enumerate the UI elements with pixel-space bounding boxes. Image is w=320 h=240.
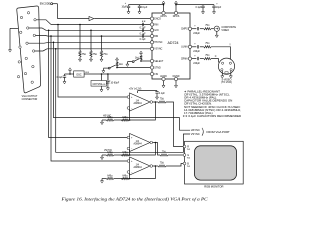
note crystal footnote text xyxy=(183,90,242,118)
svg-text:VSYNC: VSYNC xyxy=(191,132,200,136)
ground (10uF right) xyxy=(213,8,215,10)
monitor screen xyxy=(195,146,237,180)
wire U3B gnd xyxy=(102,154,106,156)
svg-text:75Ω: 75Ω xyxy=(187,148,191,151)
resistor 649ohm gain U3A xyxy=(106,119,114,121)
wire U3C to res xyxy=(155,165,158,167)
capacitor 10uF (left) xyxy=(128,5,130,6)
capacitor 220uF (CRMA) xyxy=(197,57,198,60)
svg-text:0.1µF: 0.1µF xyxy=(140,39,147,41)
wire +5V to resistor STND xyxy=(116,60,118,62)
resistor 649ohm feedback U3C xyxy=(121,177,129,179)
wire line3 GIN xyxy=(46,29,150,31)
wire line4 BIN xyxy=(48,35,150,37)
wire switch S2 to ground xyxy=(103,67,108,69)
svg-text:75Ω: 75Ω xyxy=(82,53,87,56)
ground (connector shell) xyxy=(9,48,12,53)
ground terminator x=91 xyxy=(90,57,93,62)
resistor 75ohm (LUMA) xyxy=(204,46,211,48)
ground (trimmer) xyxy=(107,83,109,86)
wire DPOS riser xyxy=(175,3,177,11)
resistor 75ohm (G drive) xyxy=(160,154,168,156)
node trimmer junction xyxy=(107,73,109,75)
node DPOS rail xyxy=(175,4,177,6)
node STND junction xyxy=(116,67,118,69)
resistor 1k STND xyxy=(116,62,118,66)
wire line1 right to ENCD xyxy=(94,18,150,20)
resistor 75ohm (B drive) xyxy=(158,165,166,167)
wire trimmer xyxy=(107,74,109,81)
wire U3B output xyxy=(152,142,155,144)
svg-text:0.1µF: 0.1µF xyxy=(159,93,166,95)
capacitor 220uF (LUMA) xyxy=(197,45,198,48)
svg-text:∗∗: ∗∗ xyxy=(85,71,89,74)
wire left cap rail xyxy=(129,4,164,6)
AD724 left pins xyxy=(150,17,164,76)
svg-text:APOS: APOS xyxy=(160,15,167,18)
svg-text:AD724: AD724 xyxy=(168,41,179,45)
svg-text:649Ω: 649Ω xyxy=(107,116,113,119)
svg-text:LUMA: LUMA xyxy=(181,46,188,49)
svg-text:75Ω: 75Ω xyxy=(205,42,210,45)
wire RED to op-amp U3A xyxy=(58,25,127,98)
wire U3C minus riser xyxy=(129,173,131,178)
wire resistor to SELECT pin xyxy=(140,60,142,61)
resistor 649ohm feedback U3A xyxy=(121,119,129,121)
wire LUMA out xyxy=(192,46,197,48)
AD724 bottom pins xyxy=(160,75,180,80)
svg-text:∗∗: ∗∗ xyxy=(142,20,146,23)
ground terminator x=101.5 xyxy=(100,57,103,62)
ground (S-video left) xyxy=(221,74,224,79)
svg-text:0.1µF: 0.1µF xyxy=(141,7,148,9)
wire U3A output xyxy=(152,101,155,103)
svg-text:ENCODE: ENCODE xyxy=(40,3,51,6)
resistor 649ohm feedback U3B xyxy=(121,154,129,156)
svg-text:75Ω: 75Ω xyxy=(93,53,98,56)
svg-text:DGND: DGND xyxy=(173,76,180,78)
wire +5V to OSC node xyxy=(69,70,71,74)
svg-text:10µF: 10µF xyxy=(216,7,222,9)
capacitor 0.1uF (left) xyxy=(139,5,141,6)
svg-text:VIDEO: VIDEO xyxy=(221,29,229,32)
svg-text:649Ω: 649Ω xyxy=(122,151,128,154)
node U3B out xyxy=(155,142,157,144)
wire U3A minus riser xyxy=(129,109,131,120)
resistor 75ohm (R drive) xyxy=(158,101,166,103)
wire APOS riser xyxy=(163,3,165,11)
svg-text:75Ω: 75Ω xyxy=(160,98,165,101)
wire GREEN pin to line3 xyxy=(29,28,46,30)
node B tap xyxy=(50,35,52,37)
svg-text:Figure 16. Interfacing the AD7: Figure 16. Interfacing the AD724 to the … xyxy=(60,198,208,202)
svg-text:220µF: 220µF xyxy=(193,33,200,35)
switch S1 (SELECT) xyxy=(132,61,134,63)
capacitor 0.1uF series on line y=24.5 xyxy=(142,23,143,26)
wire CRMA to S-video xyxy=(211,59,219,63)
ground (10uF left) xyxy=(128,8,130,10)
svg-text:1kΩ: 1kΩ xyxy=(119,63,123,66)
svg-text:G: G xyxy=(187,154,189,157)
svg-text:220µF: 220µF xyxy=(193,63,200,65)
wire termination x=80 xyxy=(79,25,81,51)
svg-text:CMPS: CMPS xyxy=(181,29,188,31)
wire RED pin to line2 xyxy=(36,20,51,25)
wire op supply xyxy=(137,91,139,93)
+5V (DPOS) xyxy=(175,1,178,3)
resistor 75ohm x=91 xyxy=(90,51,92,58)
svg-text:75Ω: 75Ω xyxy=(187,156,191,159)
svg-text:FIN: FIN xyxy=(154,74,158,76)
svg-text:0.1µF: 0.1µF xyxy=(140,28,147,30)
node R tap xyxy=(57,24,59,26)
wire U3A gnd xyxy=(102,119,106,121)
node OSC supply xyxy=(69,73,71,75)
svg-text:R: R xyxy=(187,145,189,148)
wire right cap rail xyxy=(176,4,214,6)
wire LUMA to S-video xyxy=(211,47,231,60)
svg-text:GIN: GIN xyxy=(154,30,158,32)
capacitor 220uF (CMPS) xyxy=(197,27,198,30)
wire CMPS out xyxy=(192,28,197,30)
trimmer capacitor 10-60pF xyxy=(106,82,109,83)
resistor 1k SELECT xyxy=(140,56,142,60)
connector pins (15) xyxy=(17,12,36,84)
svg-text:OSC: OSC xyxy=(76,74,82,77)
svg-text:HSYNC: HSYNC xyxy=(154,42,162,44)
svg-text:AGND: AGND xyxy=(160,75,167,78)
svg-text:BIN: BIN xyxy=(154,36,158,38)
wire VSYNC to monitor xyxy=(56,49,190,153)
ground terminator x=80 xyxy=(79,57,82,62)
ground (U3C gain) xyxy=(101,179,104,184)
node tap 75ohm at x=101.5 xyxy=(101,35,103,37)
ground (composite jack) xyxy=(216,31,218,33)
wire U3B to res xyxy=(155,143,160,156)
wire +5V to resistor xyxy=(140,53,142,55)
wire line6 VSYNC xyxy=(47,48,150,50)
svg-text:CONNECTOR: CONNECTOR xyxy=(22,98,38,101)
RGB monitor box xyxy=(185,141,244,184)
svg-text:649Ω: 649Ω xyxy=(122,116,128,119)
wire HSYNC to monitor xyxy=(54,42,191,130)
wire HSYNC pin to line5 xyxy=(28,41,49,44)
svg-text:0.1µF: 0.1µF xyxy=(196,7,203,9)
node tap 75ohm at x=91 xyxy=(90,30,92,32)
node U3B inverting xyxy=(129,154,131,156)
wire OSC node to box xyxy=(70,73,74,75)
capacitor 0.1uF series on line y=30.3 xyxy=(142,29,143,32)
resistor 75ohm x=101.5 xyxy=(100,51,102,58)
ground (S-video right) xyxy=(229,74,232,79)
connector ground wire xyxy=(10,27,18,29)
wire U3A to res xyxy=(155,101,158,103)
connector composite video jack xyxy=(214,26,219,31)
svg-text:649Ω: 649Ω xyxy=(122,175,128,178)
ground (S2) xyxy=(102,68,105,73)
op-amp U3B buffer xyxy=(127,134,153,152)
svg-text:CRYSTAL∗: CRYSTAL∗ xyxy=(92,83,105,86)
capacitor 0.1uF (op supply) xyxy=(156,90,158,93)
wire VSYNC pin to line6 xyxy=(35,49,47,51)
wire BLUE pin to line4 xyxy=(36,34,49,37)
svg-text:RIN: RIN xyxy=(154,24,158,26)
svg-text:649Ω: 649Ω xyxy=(107,175,113,178)
svg-text:75Ω: 75Ω xyxy=(162,150,167,153)
svg-text:10µF: 10µF xyxy=(121,7,127,9)
resistor 649ohm gain U3B xyxy=(106,154,114,156)
svg-text:75Ω: 75Ω xyxy=(205,54,210,57)
svg-text:STND: STND xyxy=(154,67,161,69)
wire cap to res (LUMA) xyxy=(200,46,204,48)
svg-text:AD8044: AD8044 xyxy=(134,166,143,169)
wire S-video gnd right xyxy=(230,71,232,74)
ground (S1) xyxy=(126,62,129,67)
wire BLUE to op-amp U3C xyxy=(51,36,127,161)
wire U3B feedback xyxy=(130,143,156,156)
wire termination x=91 xyxy=(90,30,92,50)
switch S2 (STND) xyxy=(108,67,110,69)
wire R to monitor xyxy=(166,102,183,147)
op-amp U3C buffer xyxy=(127,157,153,175)
resistor 75ohm (CRMA) xyxy=(204,58,211,60)
wire resistor to STND pin xyxy=(116,66,118,67)
svg-text:HSYNC: HSYNC xyxy=(191,128,200,132)
ground (U3A gain) xyxy=(101,120,104,125)
ground (DGND) xyxy=(175,83,178,88)
svg-text:0.1µF: 0.1µF xyxy=(140,33,147,35)
svg-text:∗∗ 0.1µF CAPACITORS RECOMMENDE: ∗∗ 0.1µF CAPACITORS RECOMMENDED xyxy=(183,114,242,118)
ground (OSC cap) xyxy=(64,77,66,79)
svg-text:220µF: 220µF xyxy=(193,51,200,53)
svg-text:FROM VGA PORT: FROM VGA PORT xyxy=(207,130,231,134)
capacitor 0.1uF series on line y=36.1 xyxy=(142,34,143,37)
wire to 0.1uF xyxy=(65,73,71,75)
wire U3C feedback xyxy=(130,166,156,179)
node tap 75ohm at x=80 xyxy=(79,24,81,26)
node G tap xyxy=(48,30,50,32)
ground (0.1uF left) xyxy=(139,8,141,10)
op-amp U3A buffer xyxy=(127,93,153,111)
wire U3C gnd xyxy=(102,178,106,180)
AD724 right pins xyxy=(181,27,192,60)
wire to trimmer xyxy=(107,74,109,81)
svg-text:+5V (+12V): +5V (+12V) xyxy=(129,88,142,91)
brace from VGA port xyxy=(202,128,203,136)
+5V (APOS) xyxy=(162,1,165,3)
wire to crystal xyxy=(101,74,103,81)
wire cap to res (CMPS) xyxy=(200,28,204,30)
wire G to monitor xyxy=(168,154,183,156)
svg-text:ENCD: ENCD xyxy=(154,19,161,21)
svg-text:649Ω: 649Ω xyxy=(107,151,113,154)
resistor 75ohm (CMPS) xyxy=(204,28,211,30)
svg-text:(TO VCR): (TO VCR) xyxy=(221,81,232,84)
wire U3A feedback xyxy=(130,102,156,120)
resistor 649ohm gain U3C xyxy=(106,177,114,179)
AD724 top pins xyxy=(160,11,179,18)
wire ENCODE to line1 xyxy=(53,3,58,5)
svg-text:0.1µF: 0.1µF xyxy=(57,77,64,79)
crystal X1 xyxy=(91,81,107,87)
svg-text:AD8044: AD8044 xyxy=(134,102,143,105)
wire OSC out to FIN xyxy=(84,73,150,75)
+5V (OSC) xyxy=(69,68,72,70)
ground (AGND) xyxy=(162,83,165,88)
+5V (STND pull-up) xyxy=(116,58,119,60)
svg-text:DPOS: DPOS xyxy=(173,16,180,18)
wire switch to ground xyxy=(127,61,132,63)
wire B to monitor xyxy=(166,164,183,167)
node crystal junction xyxy=(101,73,103,75)
wire line1 left xyxy=(58,18,90,20)
svg-text:VSYNC: VSYNC xyxy=(154,49,162,51)
wire res to jack (CMPS) xyxy=(211,28,214,30)
svg-text:75Ω: 75Ω xyxy=(205,24,210,27)
svg-text:10-60pF: 10-60pF xyxy=(111,82,120,84)
ground (U3B gain) xyxy=(101,155,104,160)
ground (op supply) xyxy=(156,93,158,95)
capacitor 10uF (right) xyxy=(213,5,215,6)
svg-text:SELECT: SELECT xyxy=(154,61,164,63)
wire GREEN to op-amp U3B xyxy=(49,30,128,137)
buffer U2 on ENCD line xyxy=(89,17,94,21)
svg-text:RGB MONITOR: RGB MONITOR xyxy=(204,184,223,188)
+5V (SELECT pull-up) xyxy=(140,51,143,53)
svg-text:CRMA: CRMA xyxy=(181,58,188,61)
wire S-video gnd left xyxy=(221,71,223,74)
wire U3C output xyxy=(152,165,155,167)
wire cap to res (CRMA) xyxy=(200,58,204,60)
ground (crystal) xyxy=(101,86,103,87)
node U3C out xyxy=(155,165,157,167)
op-amp U1 AD724 body xyxy=(152,13,190,79)
connector S-video (4-pin mini-DIN) xyxy=(218,58,234,74)
oscillator OSC box xyxy=(74,71,84,77)
ground (0.1uF right) xyxy=(202,8,204,10)
wire termination x=101.5 xyxy=(101,36,103,50)
node V tap xyxy=(55,48,57,50)
node U3A inverting xyxy=(129,119,131,121)
wire line2 RIN xyxy=(51,24,150,26)
monitor RGB inputs xyxy=(183,145,191,168)
wire AGND to ground xyxy=(163,81,165,84)
capacitor 0.1uF (OSC) xyxy=(63,76,66,77)
svg-text:75Ω: 75Ω xyxy=(187,165,191,168)
VGA output connector J1 (DB15 shell) xyxy=(17,6,41,93)
node H tap xyxy=(53,42,55,44)
wire DGND to ground xyxy=(175,81,177,84)
node U3C inverting xyxy=(129,178,131,180)
wire CRMA out xyxy=(192,58,197,60)
node APOS rail xyxy=(163,4,165,6)
wire line5 HSYNC xyxy=(49,41,150,43)
svg-text:75Ω: 75Ω xyxy=(103,53,108,56)
node SELECT junction xyxy=(140,60,142,62)
node U3A out xyxy=(155,101,157,103)
wire U3B minus riser xyxy=(129,150,131,155)
capacitor 0.1uF (right) xyxy=(202,5,204,6)
svg-text:75Ω: 75Ω xyxy=(160,162,165,165)
svg-text:AD8044: AD8044 xyxy=(134,143,143,146)
resistor 75ohm x=80 xyxy=(79,51,81,58)
